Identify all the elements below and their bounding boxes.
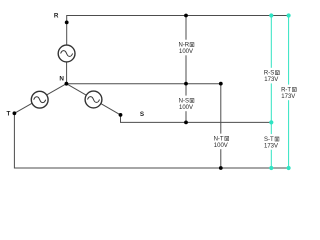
svg-text:173V: 173V (264, 144, 278, 150)
terminal dot S (119, 113, 123, 117)
junction dot N-R bottom (184, 82, 188, 86)
svg-text:N: N (59, 76, 64, 83)
wire: diagonal N to S through V3 (66, 84, 120, 115)
svg-text:R-T: R-T (281, 88, 291, 94)
wire: V1 to node N (66, 54, 68, 84)
label R-S 間 173V (262, 68, 280, 84)
AC source V1 (58, 45, 75, 62)
svg-text:T: T (6, 111, 10, 118)
svg-text:N-T: N-T (214, 137, 224, 143)
svg-text:100V: 100V (179, 105, 193, 111)
AC source V2 (31, 91, 48, 108)
svg-text:N-R: N-R (178, 43, 189, 49)
svg-text:R-S: R-S (264, 71, 274, 77)
wire R top: from terminal R up and right to far right (67, 16, 289, 23)
svg-text:100V: 100V (179, 49, 193, 55)
cyan dot R-S bottom / S-T top (269, 120, 273, 124)
label N-T 間 100V (212, 134, 230, 150)
label N-R 間 100V (177, 40, 195, 56)
cyan dot S-T bottom (269, 166, 273, 170)
svg-text:100V: 100V (214, 143, 228, 149)
junction dot N-T top (219, 82, 223, 86)
label N-S 間 100V (177, 96, 195, 112)
wire: T terminal down and right along bottom (14, 113, 288, 168)
terminal dot T (13, 111, 17, 115)
svg-text:S-T: S-T (264, 137, 274, 143)
label S-T 間 173V (262, 134, 280, 150)
AC source V3 (85, 91, 102, 108)
cyan dot R-T top (287, 13, 291, 17)
node N dot (65, 82, 69, 86)
junction dot N-S bottom (184, 121, 188, 125)
wire: node N right to N-T tap (66, 83, 220, 85)
svg-text:S: S (140, 111, 144, 118)
svg-text:173V: 173V (264, 77, 278, 83)
svg-text:N-S: N-S (179, 99, 189, 105)
junction dot N-T bottom (219, 166, 223, 170)
terminal dot R (65, 21, 69, 25)
wire: S terminal down then right (121, 115, 272, 123)
svg-text:173V: 173V (281, 94, 295, 100)
measure line R-S / S-T (cyan) (270, 16, 272, 169)
label R-T 間 173V (279, 85, 297, 101)
cyan dot R-S top (269, 13, 273, 17)
measure line N-R vertical (185, 16, 187, 84)
measure line N-S vertical (185, 84, 187, 123)
junction dot N-R top (184, 14, 188, 18)
measure line R-T (cyan) (288, 16, 290, 169)
wire: R terminal down to source V1 (66, 22, 68, 53)
wire: diagonal N to T through V2 (14, 84, 66, 114)
cyan dot R-T bottom (287, 166, 291, 170)
measure line N-T vertical (220, 84, 222, 168)
svg-text:R: R (54, 12, 59, 19)
